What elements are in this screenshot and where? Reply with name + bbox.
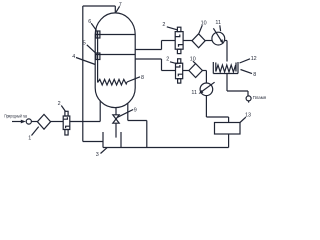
svg-text:8: 8	[253, 72, 256, 78]
regulator 11 (top)	[212, 32, 225, 45]
drain valve 9 (bowtie)	[113, 115, 119, 119]
filter 10 (top diamond)	[192, 34, 205, 48]
gas meter 2 (top branch)	[175, 27, 183, 53]
svg-text:10: 10	[201, 20, 207, 26]
label 13	[240, 117, 246, 122]
filter 1 (diamond)	[37, 114, 50, 129]
label 9	[118, 110, 134, 118]
vessel bottom-right stub wire	[127, 103, 129, 121]
svg-text:1: 1	[28, 136, 31, 142]
svg-text:9: 9	[134, 107, 137, 113]
label 5	[87, 45, 96, 53]
wire heater to burner	[226, 74, 228, 92]
svg-text:13: 13	[245, 113, 251, 119]
label 8 (heater)	[241, 70, 253, 74]
riser pipe (vessel top line)	[82, 6, 84, 142]
svg-text:2: 2	[166, 57, 169, 63]
label 1	[32, 127, 39, 136]
tray line (vessel level 2)	[95, 54, 135, 56]
drain downpipe	[115, 123, 117, 137]
wire filter to regulator (top)	[205, 40, 212, 42]
internal dip tube	[97, 32, 99, 83]
wire meter to vessel bottom	[70, 121, 100, 123]
svg-text:2: 2	[162, 22, 165, 28]
drain pan 3	[102, 132, 104, 148]
wire circle to filter	[31, 121, 37, 123]
label 3	[101, 148, 108, 154]
svg-text:2: 2	[58, 101, 61, 107]
wire regulator to device 13	[205, 96, 207, 117]
svg-text:11: 11	[191, 90, 197, 96]
svg-text:8: 8	[141, 75, 144, 81]
svg-text:12: 12	[251, 56, 257, 62]
wire filter to meter	[50, 121, 63, 123]
svg-text:6: 6	[88, 19, 91, 25]
vessel 4 shell	[95, 13, 135, 108]
upper outlet wire	[135, 49, 161, 51]
node circle (inlet connection)	[26, 119, 31, 124]
lower outlet wire	[135, 58, 161, 60]
vessel bottom nozzle	[115, 108, 117, 115]
svg-text:4: 4	[72, 54, 75, 60]
wire device 13 to bottom rail	[228, 134, 230, 148]
heating coil 8 (zigzag in vessel)	[98, 79, 127, 85]
wire inlet up into vessel bottom cap	[99, 101, 101, 122]
inlet flow arrow	[12, 121, 23, 123]
wire regulator down to heater	[225, 40, 227, 42]
label 12	[240, 59, 251, 63]
burner node	[246, 96, 251, 101]
svg-text:3: 3	[96, 152, 99, 158]
bottom rail wire	[103, 147, 229, 149]
filter 10 (lower diamond)	[189, 64, 203, 78]
label 8 (coil)	[127, 77, 140, 82]
nozzle 6 (upper fitting)	[96, 31, 100, 38]
nozzle 5 (lower fitting)	[96, 53, 100, 60]
svg-text:Природный газ: Природный газ	[4, 113, 27, 119]
svg-text:Пламя: Пламя	[253, 95, 267, 100]
vessel top nozzle nib	[114, 6, 116, 13]
gas meter 2 (lower branch)	[176, 59, 183, 83]
label 4 (vessel)	[76, 58, 95, 65]
label 7	[116, 6, 120, 12]
device 13	[215, 123, 241, 135]
wire filter down to regulator (lower)	[202, 70, 206, 72]
label 6	[91, 23, 96, 30]
regulator 11 (lower)	[200, 83, 213, 96]
svg-text:5: 5	[83, 41, 86, 47]
wire meter to filter (top)	[183, 40, 192, 42]
heater 12 (coil bath)	[213, 62, 238, 74]
wire meter to filter (lower)	[183, 70, 189, 72]
gas meter 2 (inlet)	[63, 111, 70, 135]
svg-text:7: 7	[119, 2, 122, 8]
